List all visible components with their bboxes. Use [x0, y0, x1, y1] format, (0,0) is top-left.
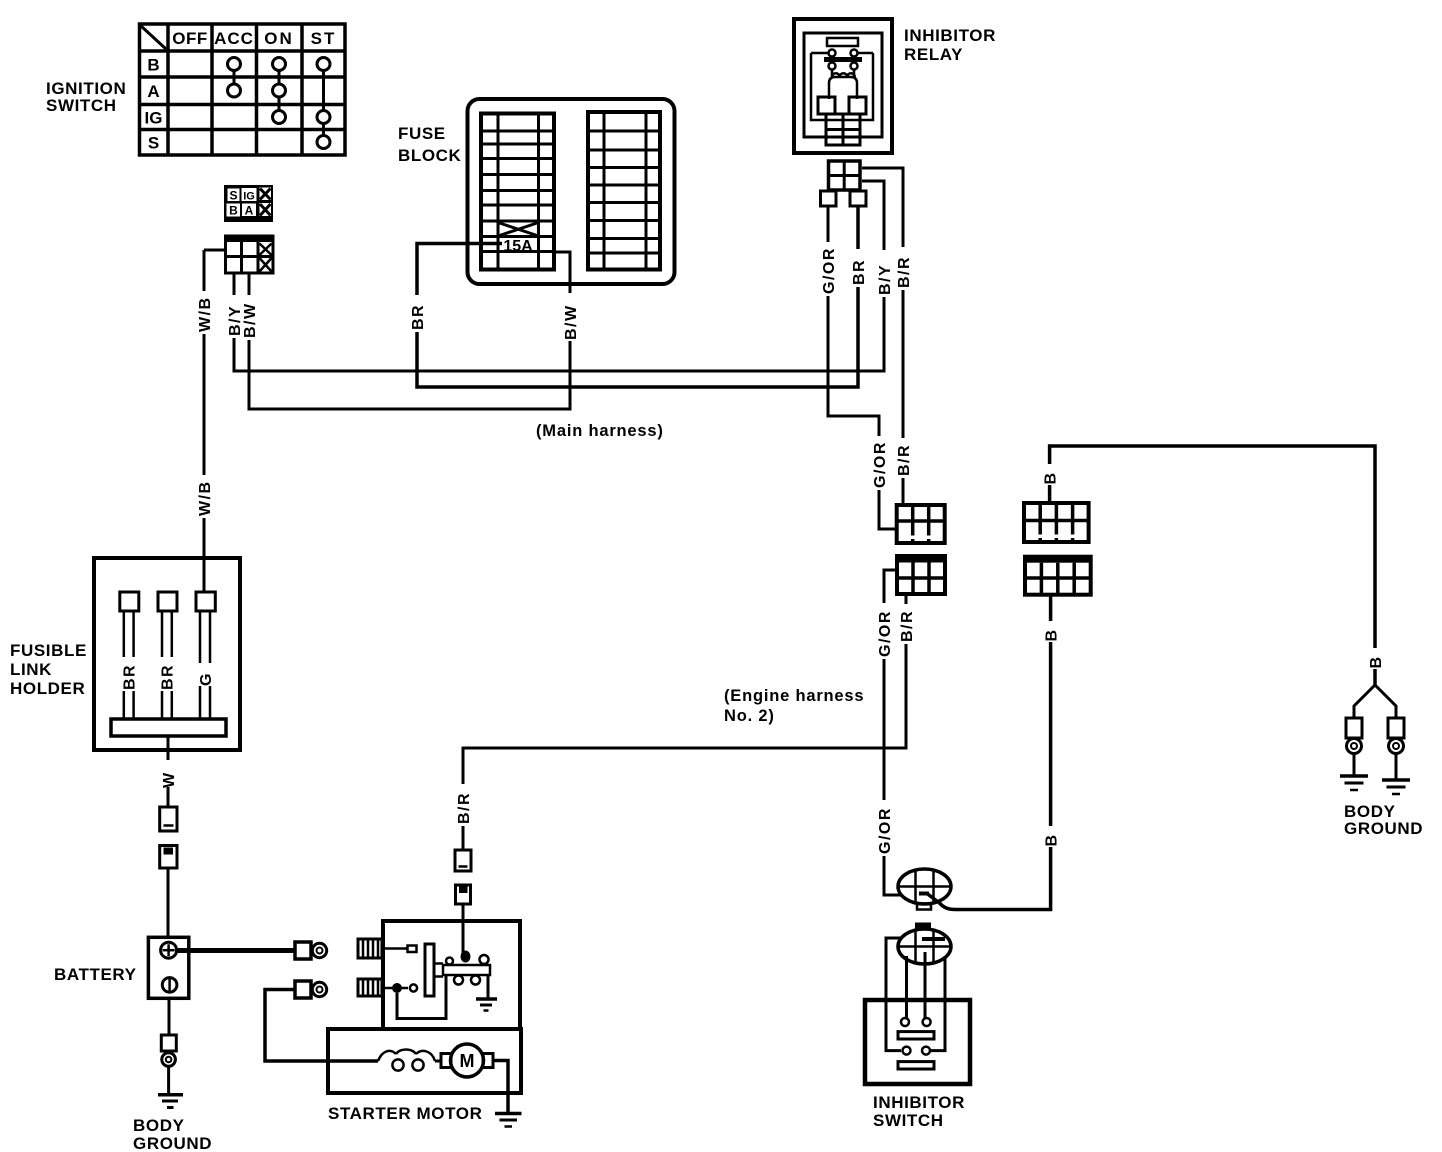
relay fixed contact bar [827, 38, 858, 46]
bus bar [111, 719, 226, 736]
connector: engine harness lower (engine side) [897, 556, 945, 594]
wire B from lower connector to inhibitor switch connector [927, 595, 1058, 910]
svg-text:B/R: B/R [456, 792, 473, 824]
connector: starter solenoid male [455, 850, 471, 871]
svg-text:INHIBITOR: INHIBITOR [904, 26, 996, 45]
svg-text:B: B [1044, 628, 1061, 641]
svg-text:G: G [198, 672, 215, 686]
svg-text:BATTERY: BATTERY [54, 965, 137, 984]
connector: body ground harness upper [1024, 503, 1089, 542]
wire B/W from ignition switch to fuse block [241, 252, 578, 409]
wire B/R engine harness No.2 to starter motor [455, 594, 914, 850]
svg-text:B/R: B/R [896, 256, 913, 288]
solenoid winding 1 [358, 939, 382, 958]
svg-text:(Engine harness: (Engine harness [724, 687, 864, 705]
svg-text:15A: 15A [503, 238, 533, 255]
svg-text:W: W [161, 771, 178, 788]
wires inhibitor switch connector to switch [886, 938, 945, 1051]
svg-text:A: A [147, 82, 159, 101]
svg-text:ST: ST [311, 29, 337, 48]
fuse bank right [588, 112, 660, 270]
motor M [441, 1054, 451, 1068]
wire from ring terminal 2 to starter motor field [265, 990, 378, 1062]
battery [148, 937, 188, 998]
inhibitor switch label [873, 1093, 965, 1130]
svg-text:S: S [229, 189, 237, 203]
svg-text:B: B [1368, 655, 1385, 668]
svg-text:LINK: LINK [10, 660, 52, 679]
svg-text:B/W: B/W [563, 304, 580, 340]
svg-text:ON: ON [264, 29, 294, 48]
wire B from upper connector to body ground [1042, 446, 1383, 685]
wire into starter solenoid [462, 904, 465, 954]
fuse block [398, 99, 675, 284]
ignition switch contact circles [228, 58, 331, 149]
svg-text:B: B [1043, 471, 1060, 484]
svg-text:G/OR: G/OR [877, 610, 894, 657]
wire battery negative to body ground [168, 998, 171, 1035]
fusible link holder [94, 558, 240, 750]
svg-text:BLOCK: BLOCK [398, 146, 462, 165]
connector: battery ground cable [161, 1035, 176, 1066]
fusible link 2 [158, 592, 177, 611]
svg-text:G/OR: G/OR [821, 247, 838, 294]
svg-text:W/B: W/B [197, 480, 214, 516]
wire from winding 2 to motor [397, 976, 446, 1019]
svg-text:GROUND: GROUND [133, 1134, 212, 1152]
relay coil [829, 70, 857, 99]
body ground (right) [1340, 685, 1410, 794]
svg-text:OFF: OFF [172, 29, 208, 48]
wire B/Y from ignition switch to inhibitor relay [226, 181, 892, 371]
connector: battery cable female [160, 846, 177, 869]
connector: body ground harness lower [1025, 557, 1091, 595]
svg-text:FUSIBLE: FUSIBLE [10, 641, 87, 660]
wire W from fusible link holder to battery [160, 736, 176, 807]
svg-text:BODY: BODY [133, 1116, 185, 1135]
ground (motor) [493, 1061, 508, 1114]
wire to battery positive [167, 868, 170, 937]
wire B/R from relay to engine harness connector [862, 168, 911, 505]
svg-text:B/R: B/R [896, 444, 913, 476]
solenoid contact 2 [382, 987, 408, 990]
svg-text:G/OR: G/OR [872, 441, 889, 488]
wire BR from fuse block to inhibitor relay [409, 206, 866, 387]
svg-text:No. 2): No. 2) [724, 707, 775, 725]
(Engine harness No. 2) label [724, 687, 864, 725]
svg-text:M: M [460, 1051, 475, 1071]
plunger shaft and return spring [443, 965, 490, 975]
connector: starter cable ring terminal 2 [295, 981, 327, 998]
svg-text:INHIBITOR: INHIBITOR [873, 1093, 965, 1112]
field coil [378, 1050, 435, 1071]
svg-text:W/B: W/B [197, 296, 214, 332]
connector: inhibitor relay harness connector [821, 161, 867, 206]
svg-text:IG: IG [145, 109, 163, 128]
solenoid contact 1 [382, 947, 407, 950]
svg-text:B: B [229, 204, 238, 218]
fuse bank left [481, 114, 554, 270]
solenoid case [383, 921, 520, 1029]
svg-text:ACC: ACC [214, 29, 254, 48]
inhibitor relay [794, 19, 892, 153]
inhibitor switch [865, 1000, 970, 1084]
connector: engine harness upper (main harness side) [897, 505, 945, 543]
svg-text:B/Y: B/Y [877, 264, 894, 295]
svg-text:S: S [148, 134, 159, 153]
starter motor [328, 921, 522, 1127]
svg-text:G/OR: G/OR [877, 807, 894, 854]
svg-text:B/R: B/R [899, 610, 916, 642]
svg-text:FUSE: FUSE [398, 124, 446, 143]
ignition switch table [140, 24, 346, 155]
connector: inhibitor switch lower (round) [898, 923, 951, 965]
plunger [425, 944, 434, 996]
connector: inhibitor switch upper (round) [898, 869, 951, 910]
fusible link 3 [196, 592, 215, 611]
svg-text:BR: BR [851, 259, 868, 285]
connector: battery cable male [160, 807, 177, 831]
svg-text:BR: BR [122, 664, 139, 690]
fusible link holder label [10, 641, 87, 698]
svg-text:(Main harness): (Main harness) [536, 422, 664, 440]
svg-text:B: B [1044, 833, 1061, 846]
motor case [328, 1029, 521, 1093]
wire W/B from ignition switch to fusible link holder [196, 250, 212, 592]
relay terminals [818, 97, 835, 114]
svg-text:SWITCH: SWITCH [873, 1111, 944, 1130]
body ground (battery) [158, 1066, 183, 1107]
ignition switch label [46, 79, 126, 115]
connector: starter cable ring terminal 1 [295, 942, 327, 959]
svg-text:A: A [245, 204, 254, 218]
battery positive cable (thick) [177, 948, 295, 953]
connector: ignition switch harness connector [204, 236, 273, 273]
connector: starter solenoid female [456, 885, 471, 904]
wire G/OR from engine connector to inhibitor switch connector [876, 570, 902, 895]
connector: ignition switch terminal block S IG B A [224, 185, 273, 222]
fusible link 1 [120, 592, 139, 611]
svg-text:BR: BR [410, 304, 427, 330]
fuse 15A (blown, X mark) [498, 223, 539, 237]
wire G/OR from relay to engine harness connector [820, 206, 897, 529]
svg-text:B/W: B/W [242, 302, 259, 338]
svg-text:BR: BR [160, 664, 177, 690]
relay contacts [811, 50, 873, 70]
svg-text:B: B [147, 56, 159, 75]
svg-text:HOLDER: HOLDER [10, 679, 85, 698]
solenoid winding 2 [358, 979, 382, 996]
svg-text:RELAY: RELAY [904, 45, 963, 64]
svg-text:IG: IG [243, 191, 255, 203]
inhibitor relay label [904, 26, 996, 64]
svg-text:GROUND: GROUND [1344, 819, 1423, 838]
ground (solenoid) [487, 975, 490, 999]
svg-text:STARTER MOTOR: STARTER MOTOR [328, 1104, 483, 1123]
relay internal connector [826, 114, 860, 145]
svg-text:SWITCH: SWITCH [46, 96, 117, 115]
